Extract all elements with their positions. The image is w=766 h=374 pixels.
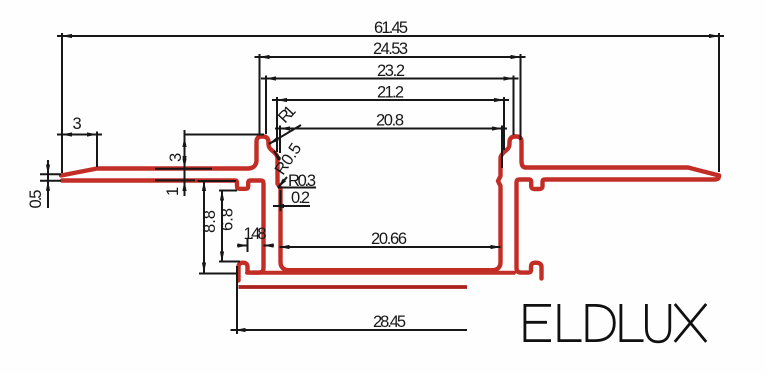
R0.5 leader <box>274 151 280 160</box>
dim 1 (wing thickness) <box>155 168 212 170</box>
svg-text:24.53: 24.53 <box>373 40 408 58</box>
svg-text:23.2: 23.2 <box>377 62 405 80</box>
right wing underside, right notch, right wall, right foot with up-finger <box>517 176 720 279</box>
svg-text:0.5: 0.5 <box>27 190 45 209</box>
dim 20.66 <box>280 246 501 248</box>
dim 3 vertical at step <box>185 134 265 136</box>
svg-text:0.2: 0.2 <box>291 189 310 207</box>
svg-text:61.45: 61.45 <box>374 19 408 37</box>
left wing underside, left notch, left wall, left foot with up-finger <box>62 181 264 281</box>
L <box>621 304 644 341</box>
svg-text:21.2: 21.2 <box>377 84 404 102</box>
dim 28.45 (truncated right) <box>236 329 468 331</box>
svg-text:R1: R1 <box>275 102 300 127</box>
U <box>646 304 669 342</box>
svg-text:1.48: 1.48 <box>244 225 267 243</box>
standalone bottom red line <box>239 285 468 289</box>
dim 3 top-left <box>62 134 97 136</box>
channel bottom thick band <box>247 271 514 275</box>
svg-text:28.45: 28.45 <box>373 313 406 331</box>
X <box>675 304 706 342</box>
dim 1.48 <box>247 238 249 252</box>
dim line overshoots <box>57 35 62 37</box>
dim 21.2 <box>277 99 504 101</box>
svg-text:6.8: 6.8 <box>219 208 237 231</box>
svg-text:1: 1 <box>164 187 182 196</box>
dim 0.5 at tip <box>40 173 61 175</box>
svg-text:3: 3 <box>167 153 185 162</box>
dim 23.2 <box>266 78 514 80</box>
dim 20.8 <box>280 128 502 130</box>
profile upper outline: left wing, left bump, channel inner walls, bottom, right bump, right wing <box>61 137 719 271</box>
svg-text:3: 3 <box>73 115 82 133</box>
L <box>559 304 582 341</box>
dim 61.45 <box>62 35 719 37</box>
svg-text:20.66: 20.66 <box>371 230 407 248</box>
dim 0.2 <box>280 190 282 211</box>
dim 8.8 <box>198 180 237 182</box>
dim 24.53 <box>260 56 521 58</box>
dim 6.8 <box>219 190 237 192</box>
R1 leader <box>269 125 301 144</box>
R0.3 leader <box>278 177 287 188</box>
svg-text:R0.3: R0.3 <box>288 172 316 190</box>
D <box>587 305 614 340</box>
svg-text:20.8: 20.8 <box>376 112 404 130</box>
E <box>525 305 551 340</box>
svg-text:8.8: 8.8 <box>201 210 219 233</box>
